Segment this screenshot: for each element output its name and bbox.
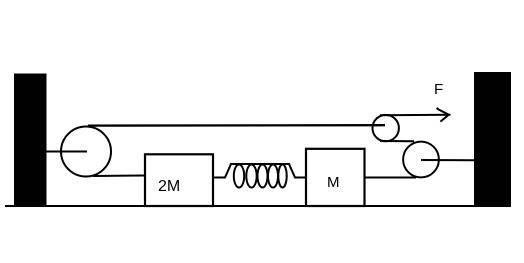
wire between pulleys bbox=[380, 140, 414, 142]
force F arrow bbox=[380, 108, 451, 122]
svg-text:2M: 2M bbox=[158, 178, 180, 195]
wall right bbox=[474, 72, 511, 205]
svg-text:F: F bbox=[434, 81, 443, 98]
mass M bbox=[306, 149, 365, 206]
mass 2M bbox=[145, 154, 213, 206]
wall left bbox=[14, 74, 47, 206]
pulley P1 bbox=[61, 127, 111, 177]
wire axle right bbox=[421, 159, 474, 161]
wire axle left bbox=[47, 151, 88, 153]
spring S1 bbox=[213, 164, 306, 188]
pulley P3 bbox=[403, 142, 439, 178]
wire M to pulley bbox=[365, 177, 416, 179]
wire lower-left string bbox=[93, 175, 145, 178]
pulley P2 bbox=[373, 115, 399, 141]
ground bbox=[5, 205, 511, 207]
wire top string bbox=[88, 124, 385, 127]
svg-text:M: M bbox=[327, 174, 340, 191]
